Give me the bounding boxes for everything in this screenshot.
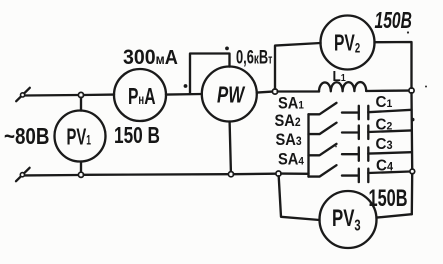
node junction right top (409, 88, 414, 93)
input terminal top (16, 88, 30, 101)
wire C3 to bus (368, 152, 411, 153)
wire PV1 top stub (80, 98, 82, 111)
voltmeter PV2 (321, 16, 375, 70)
svg-text:150В: 150В (375, 8, 412, 34)
wattmeter PW (202, 67, 257, 122)
node junction PV1 bottom (78, 172, 83, 177)
label 150V bottom right (369, 185, 408, 212)
node junction PW bottom (228, 172, 233, 177)
wire bottom rail to switch bus (281, 172, 308, 175)
wire PV3 left lead (279, 176, 320, 220)
label C4 (376, 157, 394, 174)
scan speck (407, 31, 409, 33)
ammeter PmA (114, 69, 166, 121)
label SA1 (278, 95, 304, 113)
label 300mA (123, 45, 178, 69)
wire node to inductor (278, 90, 319, 92)
label L1 (333, 68, 347, 85)
wire PW bottom stub (230, 122, 231, 172)
junction dot on right bus (411, 118, 415, 122)
label PV2 (334, 31, 360, 57)
voltmeter PV1 (55, 111, 106, 162)
label PV3 (332, 205, 361, 234)
wire PV1 bottom stub (80, 162, 82, 173)
svg-text:PV3: PV3 (332, 205, 361, 234)
svg-text:SA1: SA1 (278, 95, 304, 113)
label 0,6kVt (236, 46, 273, 68)
svg-text:~80В: ~80В (4, 123, 49, 150)
svg-text:150 В: 150 В (114, 124, 160, 149)
switch SA2 (309, 123, 337, 134)
label 150V top right (375, 8, 412, 34)
switch bus vertical (307, 114, 309, 176)
label PmA (128, 84, 155, 110)
label SA2 (275, 112, 301, 130)
svg-text:L1: L1 (333, 68, 347, 85)
right bus vertical lower (411, 174, 414, 214)
wire PV2 right branch (375, 42, 412, 88)
wire PW to node (257, 92, 273, 93)
wire C1 to bus (368, 110, 411, 112)
svg-text:SA4: SA4 (278, 151, 304, 169)
switch SA1 (309, 103, 337, 114)
svg-text:C4: C4 (376, 157, 394, 174)
polarity dot left (184, 84, 188, 88)
label SA4 (278, 151, 304, 169)
label ~80V (4, 123, 49, 150)
label C1 (376, 94, 393, 111)
svg-text:SA3: SA3 (276, 132, 302, 150)
wire top rail left segment (25, 94, 79, 97)
svg-text:PV1: PV1 (67, 124, 91, 150)
label C3 (376, 135, 393, 152)
capacitor C2 (342, 126, 368, 139)
capacitor C4 (342, 169, 368, 182)
scan speck (425, 86, 427, 88)
svg-text:SA2: SA2 (275, 112, 301, 130)
right bus vertical upper (410, 93, 413, 169)
wire PV2 left branch (275, 43, 321, 89)
wire bottom rail middle (84, 173, 229, 176)
switch SA3 (309, 144, 337, 155)
wire C4 to bus (368, 172, 410, 174)
polarity dot top (225, 47, 229, 51)
label 150V left (114, 124, 160, 149)
wire ammeter to wattmeter (166, 93, 202, 96)
svg-text:PW: PW (217, 83, 246, 108)
label PV1 (67, 124, 91, 150)
scan speck (335, 146, 337, 148)
svg-text:C3: C3 (376, 135, 393, 152)
inductor L1 (319, 82, 366, 91)
label C2 (376, 116, 393, 133)
wire PV3 right lead (377, 214, 412, 217)
svg-text:300мА: 300мА (123, 45, 178, 69)
node junction C4 right (410, 169, 415, 174)
capacitor C3 (342, 147, 368, 160)
label PW (217, 83, 246, 108)
wire inductor to node (366, 89, 409, 92)
svg-text:C2: C2 (376, 116, 393, 133)
svg-text:0,6кВт: 0,6кВт (236, 46, 273, 68)
wattmeter voltage-coil loop (190, 54, 230, 95)
wire bottom rail to PV3 node (234, 173, 276, 176)
input terminal bottom (16, 168, 30, 181)
svg-text:PнА: PнА (128, 84, 155, 110)
svg-text:PV2: PV2 (334, 31, 360, 57)
wire C2 to bus (368, 130, 411, 132)
capacitor C1 (342, 106, 368, 119)
node junction PV3 tap (276, 171, 281, 176)
voltmeter PV3 (320, 191, 377, 248)
svg-text:150В: 150В (369, 185, 408, 212)
node junction PV2 left (272, 89, 277, 94)
wire top rail to ammeter (84, 93, 114, 96)
svg-text:C1: C1 (376, 94, 393, 111)
switch SA4 (309, 165, 337, 176)
wire bottom rail left segment (25, 174, 79, 177)
node junction PV1 top (78, 92, 83, 97)
label SA3 (276, 132, 302, 150)
